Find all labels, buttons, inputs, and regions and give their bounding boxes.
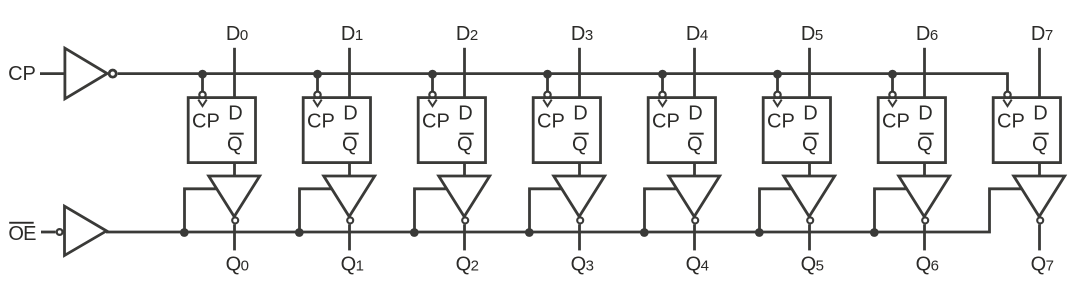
node OE bus tap 4 (640, 228, 649, 237)
svg-text:Q4: Q4 (686, 254, 709, 276)
wire enable branch 3 (530, 189, 563, 232)
tri-state inverting buffer 5 (784, 176, 835, 223)
wire output Q2 (463, 224, 466, 250)
svg-text:Q3: Q3 (571, 254, 594, 276)
wire output Q7 (1038, 224, 1041, 250)
wire D3 input (578, 48, 581, 99)
node OE bus tap 6 (870, 228, 879, 237)
wire output Q6 (923, 224, 926, 250)
svg-text:Q6: Q6 (916, 254, 939, 276)
wire Q-bar to buffer 6 (923, 163, 926, 177)
svg-text:D: D (1033, 103, 1047, 125)
svg-text:CP: CP (422, 110, 450, 132)
wire clock stub 5 (776, 74, 779, 92)
svg-text:D6: D6 (916, 23, 938, 45)
wire D2 input (463, 48, 466, 99)
wire enable branch 5 (760, 189, 793, 232)
svg-text:D: D (343, 103, 357, 125)
svg-text:Q: Q (227, 133, 243, 155)
wire output Q0 (233, 224, 236, 250)
wire enable branch 1 (300, 189, 333, 232)
svg-text:D: D (918, 103, 932, 125)
svg-text:CP: CP (997, 110, 1025, 132)
svg-text:Q: Q (457, 133, 473, 155)
svg-text:CP: CP (882, 110, 910, 132)
wire clock stub 6 (891, 74, 894, 92)
flip-flop FF3 (533, 92, 600, 163)
svg-text:Q: Q (802, 133, 818, 155)
wire D0 input (233, 48, 236, 99)
svg-text:CP: CP (767, 110, 795, 132)
wire output Q4 (693, 224, 696, 250)
wire Q-bar to buffer 3 (578, 163, 581, 177)
svg-text:D0: D0 (226, 23, 248, 45)
flip-flop FF6 (878, 92, 945, 163)
svg-text:Q: Q (572, 133, 588, 155)
svg-text:D: D (458, 103, 472, 125)
wire enable branch 2 (415, 189, 448, 232)
svg-text:Q2: Q2 (456, 254, 479, 276)
inverter U1 (CP clock inverter) (65, 48, 116, 99)
wire output Q3 (578, 224, 581, 250)
node CP bus tap 3 (543, 70, 552, 79)
svg-text:CP: CP (307, 110, 335, 132)
tri-state inverting buffer 3 (554, 176, 605, 223)
tri-state inverting buffer 4 (669, 176, 720, 223)
wire D4 input (693, 48, 696, 99)
wire Q-bar to buffer 4 (693, 163, 696, 177)
svg-text:D: D (573, 103, 587, 125)
svg-text:D: D (688, 103, 702, 125)
flip-flop FF0 (188, 92, 255, 163)
wire output Q1 (348, 224, 351, 250)
node CP bus tap 4 (658, 70, 667, 79)
wire clock stub 0 (201, 74, 204, 92)
wire Q-bar to buffer 0 (233, 163, 236, 177)
svg-text:CP: CP (192, 110, 220, 132)
tri-state inverting buffer 1 (324, 176, 375, 223)
svg-text:D: D (228, 103, 242, 125)
svg-text:D2: D2 (456, 23, 478, 45)
svg-text:Q: Q (917, 133, 933, 155)
wire CP bus (118, 74, 1008, 92)
node OE bus tap 2 (410, 228, 419, 237)
svg-text:Q5: Q5 (801, 254, 824, 276)
wire Q-bar to buffer 2 (463, 163, 466, 177)
svg-text:D5: D5 (801, 23, 823, 45)
wire Q-bar to buffer 1 (348, 163, 351, 177)
tri-state inverting buffer 6 (899, 176, 950, 223)
wire enable branch 0 (185, 189, 218, 232)
wire output Q5 (808, 224, 811, 250)
svg-text:D7: D7 (1031, 23, 1053, 45)
tri-state inverting buffer 7 (1014, 176, 1065, 223)
svg-text:Q0: Q0 (226, 254, 249, 276)
label OE (active low) (8, 222, 36, 245)
svg-text:OE: OE (8, 223, 36, 245)
tri-state inverting buffer 2 (439, 176, 490, 223)
flip-flop FF4 (648, 92, 715, 163)
flip-flop FF1 (303, 92, 370, 163)
node CP bus tap 0 (198, 70, 207, 79)
node CP bus tap 5 (773, 70, 782, 79)
svg-text:Q1: Q1 (341, 254, 364, 276)
node OE bus tap 3 (525, 228, 534, 237)
tri-state inverting buffer 0 (209, 176, 260, 223)
wire Q-bar to buffer 7 (1038, 163, 1041, 177)
svg-text:Q: Q (687, 133, 703, 155)
wire enable branch 6 (875, 189, 908, 232)
wire D1 input (348, 48, 351, 99)
wire D7 input (1038, 48, 1041, 99)
svg-text:CP: CP (8, 63, 36, 85)
node OE bus tap 1 (295, 228, 304, 237)
node CP bus tap 6 (888, 70, 897, 79)
node OE bus tap 5 (755, 228, 764, 237)
svg-text:Q: Q (342, 133, 358, 155)
flip-flop FF5 (763, 92, 830, 163)
svg-text:D1: D1 (341, 23, 363, 45)
wire OE bus (106, 189, 1022, 232)
wire clock stub 1 (316, 74, 319, 92)
svg-text:D: D (803, 103, 817, 125)
node CP bus tap 1 (313, 70, 322, 79)
flip-flop FF7 (993, 92, 1060, 163)
svg-text:CP: CP (652, 110, 680, 132)
node CP bus tap 2 (428, 70, 437, 79)
wire D6 input (923, 48, 926, 99)
wire clock stub 4 (661, 74, 664, 92)
wire OE input (41, 231, 56, 234)
svg-text:Q: Q (1032, 133, 1048, 155)
node OE bus tap 0 (180, 228, 189, 237)
wire Q-bar to buffer 5 (808, 163, 811, 177)
svg-text:Q7: Q7 (1031, 254, 1054, 276)
wire enable branch 4 (645, 189, 678, 232)
wire CP input (40, 72, 65, 75)
buffer U2 (OE output-enable buffer) (57, 206, 107, 255)
wire clock stub 3 (546, 74, 549, 92)
svg-text:D4: D4 (686, 23, 708, 45)
flip-flop FF2 (418, 92, 485, 163)
wire D5 input (808, 48, 811, 99)
svg-text:CP: CP (537, 110, 565, 132)
wire clock stub 2 (431, 74, 434, 92)
svg-text:D3: D3 (571, 23, 593, 45)
